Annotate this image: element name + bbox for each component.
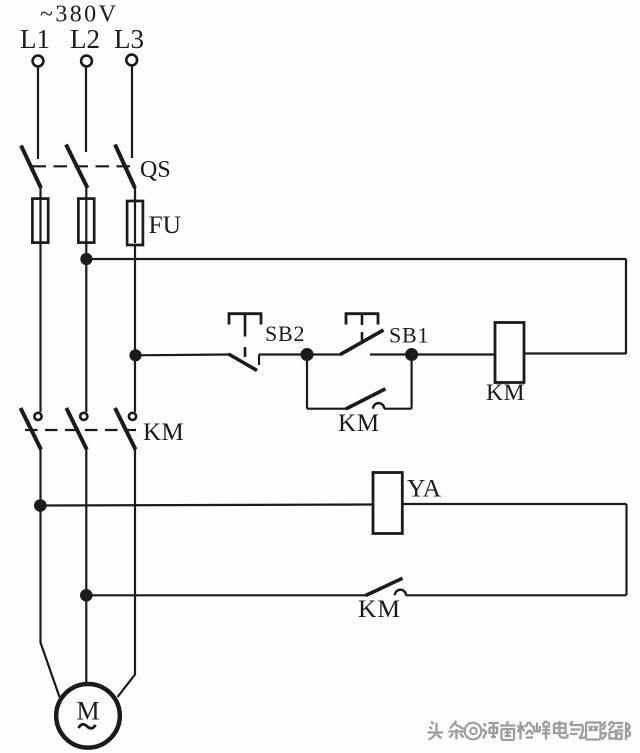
svg-text:L1: L1	[20, 24, 50, 54]
wire YA rail left	[40, 505, 373, 506]
wire self-hold left drop	[306, 355, 308, 409]
switch QS pole 3 blade	[115, 145, 135, 189]
node junction self-hold right	[406, 349, 417, 360]
svg-text:FU: FU	[149, 210, 182, 239]
wire SB2 to SB1	[259, 353, 341, 355]
svg-text:KM: KM	[338, 410, 380, 437]
wire bottom rail right	[406, 594, 627, 596]
wire L3 FU to KM contact	[134, 245, 136, 412]
pushbutton SB1 NO blade	[340, 330, 383, 355]
svg-text:SB2: SB2	[265, 321, 305, 346]
wire right edge down to control line	[625, 259, 627, 354]
wire KM coil to right edge	[524, 352, 626, 354]
wire L2 FU to KM contact	[85, 242, 87, 412]
wire top rail L2 to right edge	[86, 258, 626, 260]
contact KM bottom arc	[395, 590, 406, 596]
pushbutton SB2 NC blade	[229, 354, 258, 371]
fuse FU2	[78, 198, 94, 243]
svg-text:M: M	[76, 697, 99, 726]
wire L3 terminal to QS	[131, 66, 133, 159]
contact KM main pole 3 blade	[115, 408, 136, 450]
motor M circle	[56, 684, 120, 748]
svg-text:KM: KM	[486, 380, 525, 406]
wire L1 diagonal into motor	[41, 643, 60, 698]
coil KM	[495, 323, 524, 383]
node junction L3 control line	[131, 350, 141, 360]
watermark white emboss layer	[429, 723, 632, 742]
terminal L3	[126, 55, 137, 66]
wire bottom rail left	[86, 594, 366, 596]
node junction L2 top rail	[81, 254, 91, 264]
QS linkage dashed line	[33, 165, 136, 167]
wire L1 terminal to QS	[37, 67, 39, 160]
node junction L1 YA rail	[35, 500, 45, 510]
terminal L2	[81, 56, 92, 67]
svg-text:KM: KM	[358, 594, 401, 623]
wire L1 KM to motor bend	[39, 449, 41, 644]
wire QS1 to FU1	[39, 186, 41, 200]
wire L2 terminal to QS	[85, 67, 87, 153]
wire self-hold bottom left	[307, 408, 347, 410]
pushbutton SB2 bracket	[229, 314, 261, 325]
contact KM main pole 1 blade	[21, 408, 42, 450]
contact KM auxiliary arc	[373, 403, 384, 409]
svg-text:SB1: SB1	[389, 323, 429, 348]
KM linkage dashed line	[25, 429, 136, 431]
wire L3 KM to motor bend	[134, 449, 136, 676]
contact KM auxiliary blade	[346, 389, 386, 409]
svg-text:L3: L3	[114, 24, 144, 54]
wire self-hold bottom right	[384, 408, 412, 410]
node junction self-hold left	[302, 349, 313, 360]
wire self-hold right riser	[411, 355, 413, 409]
wire right edge YA loop	[625, 504, 627, 595]
wire L2 KM to motor	[85, 449, 87, 683]
wire L1 FU to KM contact	[39, 242, 41, 412]
terminal L1	[33, 56, 44, 67]
fuse FU3	[127, 198, 143, 245]
svg-text:YA: YA	[407, 474, 442, 503]
wire QS2 to FU2	[85, 186, 87, 200]
contact KM main pole 1 hook	[34, 413, 41, 420]
solenoid YA	[373, 473, 402, 534]
pushbutton SB1 stem	[361, 314, 364, 341]
contact KM bottom blade	[366, 578, 403, 595]
wire QS3 to FU3	[134, 186, 136, 200]
fuse FU1	[32, 198, 48, 243]
wire L3 diagonal into motor	[118, 675, 136, 698]
contact KM main pole 2 hook	[80, 413, 87, 420]
switch QS pole 1 blade	[21, 146, 41, 189]
pushbutton SB2 right contact tick	[258, 355, 260, 366]
svg-text:KM: KM	[143, 419, 184, 446]
pushbutton SB2 stem	[244, 314, 247, 357]
wire YA rail right	[402, 503, 626, 505]
pushbutton SB1 bracket	[346, 314, 378, 325]
watermark gray layer	[428, 721, 631, 740]
svg-text:L2: L2	[70, 24, 100, 54]
motor tilde	[79, 724, 96, 728]
node junction L2 bottom rail	[81, 590, 91, 600]
wire L3 junction to SB2	[136, 353, 230, 356]
wire SB1 to KM coil	[370, 353, 495, 355]
svg-text:QS: QS	[140, 157, 171, 183]
contact KM main pole 2 blade	[66, 408, 87, 450]
contact KM main pole 3 hook	[129, 413, 136, 420]
switch QS pole 2 blade	[66, 145, 88, 189]
